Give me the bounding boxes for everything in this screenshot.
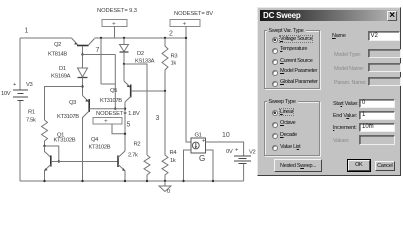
- svg-text:R3: R3: [171, 54, 178, 60]
- svg-text:D1: D1: [59, 66, 66, 72]
- svg-text:1: 1: [25, 28, 29, 35]
- node dot: Q2 base / D1 anode junction: [81, 53, 83, 55]
- node dot on top wire at node7 drop: [100, 37, 102, 39]
- svg-text:Q4: Q4: [91, 137, 99, 143]
- node dot: D2 top on wire: [123, 37, 125, 39]
- svg-text:NODESET= 1.8V: NODESET= 1.8V: [96, 111, 140, 117]
- svg-text:NODESET= 9.3: NODESET= 9.3: [97, 8, 137, 14]
- node dot: R3 bottom / Q5 base junction: [164, 90, 166, 92]
- svg-text:1k: 1k: [170, 158, 176, 164]
- svg-text:3: 3: [156, 115, 160, 122]
- right column: Name row: [332, 33, 346, 39]
- group: Swept Var. Type: [264, 30, 320, 89]
- node 1: [25, 28, 29, 35]
- svg-text:+: +: [112, 21, 116, 28]
- NODESET= 1.8V symbol: [93, 111, 140, 134]
- wire D2 cathode to Q5 emitter: [123, 64, 125, 81]
- svg-text:0: 0: [167, 189, 170, 195]
- transistor Q5 (PNP KT3107B): [100, 81, 165, 104]
- buttons: [274, 159, 322, 173]
- svg-text:KT3102B: KT3102B: [89, 145, 111, 151]
- node dot: NODESET8V junction: [185, 37, 187, 39]
- wire 8V net vertical to G1: [186, 38, 191, 142]
- svg-text:G: G: [199, 154, 205, 163]
- node dots on ground rail: [43, 180, 45, 182]
- NODESET= 8V symbol: [170, 11, 213, 38]
- resistor R3 1k: [162, 38, 177, 91]
- transistor Q3 (PNP KT3107B): [57, 96, 125, 182]
- wire net5 vertical (Q5 collector to Q4 collector): [124, 102, 126, 151]
- wire Q2 collector to NODESET8V junction: [95, 37, 187, 39]
- voltage source V2 0V: [226, 148, 256, 182]
- svg-text:Q5: Q5: [110, 88, 117, 94]
- svg-text:D2: D2: [137, 51, 144, 57]
- wire base bus Q1 to Q4: [59, 161, 118, 163]
- svg-text:7.5k: 7.5k: [26, 118, 36, 124]
- diode D1 (KS169A): [51, 55, 88, 96]
- wire R1 top branch: [45, 87, 83, 121]
- NODESET= 9.3 symbol: [97, 8, 137, 38]
- svg-text:10: 10: [222, 132, 230, 139]
- svg-text:+: +: [13, 82, 17, 88]
- svg-text:+: +: [104, 118, 108, 125]
- svg-text:R2: R2: [134, 142, 141, 148]
- svg-text:Q3: Q3: [69, 100, 76, 106]
- diode D2 (KS133A): [120, 38, 155, 65]
- svg-text:R4: R4: [170, 150, 178, 156]
- controlled source G1: [191, 133, 206, 164]
- transistor Q1 (NPN KT3102B, mirrored): [45, 133, 76, 182]
- svg-text:KT3107B: KT3107B: [100, 98, 122, 104]
- svg-text:KT3102B: KT3102B: [54, 138, 76, 144]
- svg-text:KS169A: KS169A: [51, 74, 71, 80]
- group: Sweep Type: [264, 101, 320, 156]
- wire node7: from top wire down, over and down to net5: [83, 38, 116, 109]
- svg-text:0V: 0V: [226, 149, 233, 155]
- svg-text:7: 7: [96, 47, 100, 54]
- svg-text:+: +: [183, 21, 187, 28]
- node dot: node7 wire meets base horizontal: [114, 108, 116, 110]
- svg-text:R1: R1: [28, 110, 35, 116]
- wire top-left from V3 corner to Q2 emitter: [20, 37, 72, 39]
- node 7: [96, 47, 100, 54]
- wire G1 upper-right pin to V2 plus: [206, 142, 244, 156]
- svg-text:V3: V3: [26, 82, 33, 88]
- svg-text:V2: V2: [249, 150, 256, 156]
- node dot: R3 top: [164, 37, 166, 39]
- right column: sweep params: [333, 101, 358, 107]
- svg-text:1k: 1k: [171, 61, 177, 67]
- wire G1 lower-right pin to ground rail: [206, 150, 214, 181]
- svg-text:NODESET= 8V: NODESET= 8V: [174, 11, 213, 17]
- svg-text:Q2: Q2: [54, 42, 61, 48]
- node dot: Q1 collector/base tie junction: [43, 145, 45, 147]
- wire Q1 collector-base tie: [45, 146, 59, 162]
- svg-text:10V: 10V: [1, 91, 11, 97]
- resistor R4 1k: [162, 91, 177, 181]
- node dot: net5 / base horizontal junction: [124, 108, 126, 110]
- svg-text:2: 2: [169, 31, 173, 38]
- node dot: NODESET1.8 pin junction: [124, 133, 126, 135]
- ground symbol 0: [159, 181, 171, 195]
- wire D2 cathode branch to R2: [124, 64, 147, 155]
- voltage source V3: [1, 38, 33, 181]
- transistor Q2 (PNP KT814B): [48, 38, 95, 58]
- svg-text:KT814B: KT814B: [48, 52, 67, 58]
- node dot: D2 cathode junction: [123, 63, 125, 65]
- ground rail wire: [20, 180, 244, 182]
- node 2: [169, 31, 173, 38]
- title bar: [260, 10, 398, 21]
- svg-text:5: 5: [127, 122, 131, 129]
- wire G1 lower-left pin to ground rail: [184, 150, 192, 181]
- resistor R1 7.5k: [26, 110, 48, 147]
- node dot: Q1 base / bus junction: [58, 160, 60, 162]
- svg-text:2.7k: 2.7k: [128, 153, 138, 159]
- node 10: [222, 132, 230, 139]
- svg-text:KT3107B: KT3107B: [57, 114, 79, 120]
- node 5: [127, 122, 131, 129]
- node dot: R1 top junction on D1 cathode wire: [81, 85, 83, 87]
- svg-text:+: +: [235, 148, 239, 154]
- resistor R2 2.7k: [128, 142, 150, 182]
- node 3: [156, 115, 160, 122]
- svg-text:G1: G1: [195, 133, 202, 139]
- transistor Q4 (NPN KT3102B): [89, 137, 126, 181]
